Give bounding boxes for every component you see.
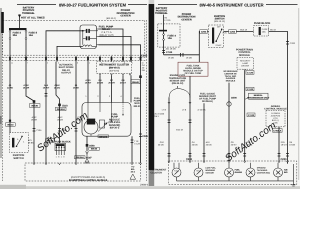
wire fuse block to right column: [269, 32, 288, 162]
connector C200 on right column: [286, 42, 289, 45]
svg-text:18 BK: 18 BK: [73, 87, 80, 90]
wire D end ticks: [45, 94, 48, 97]
speedo tach message label: [257, 167, 271, 175]
cluster internal ground bus: [177, 161, 294, 181]
fuse F5: [9, 30, 11, 57]
svg-text:18 DG: 18 DG: [54, 87, 61, 90]
svg-text:8W-30: 8W-30: [134, 105, 141, 108]
scan right edge line: [298, 8, 299, 180]
svg-text:S110: S110: [62, 104, 68, 107]
cluster variant note: [223, 70, 238, 83]
lamp security: [246, 163, 255, 177]
splice C48 ref box: [131, 80, 140, 84]
svg-text:10A: 10A: [168, 37, 173, 40]
svg-text:CLUSTER: CLUSTER: [151, 171, 163, 174]
sensor leg wires: [168, 98, 170, 162]
svg-text:G200: G200: [231, 96, 237, 99]
svg-text:CONTROL MODULE: CONTROL MODULE: [264, 108, 287, 111]
svg-text:(8W-30-2): (8W-30-2): [106, 17, 116, 20]
svg-text:C 120: C 120: [248, 114, 255, 117]
run connector ticks: [181, 53, 183, 57]
svg-text:IND: IND: [284, 171, 288, 174]
splice S110 on column E: [58, 104, 61, 107]
ticks on x132: [131, 140, 134, 143]
connector ticks on sensor wires: [168, 120, 192, 123]
wire label C lower: [28, 139, 34, 144]
svg-text:5: 5: [47, 62, 48, 65]
bus bar in PDC: [9, 28, 27, 30]
svg-text:TEMPERATURE: TEMPERATURE: [169, 77, 187, 80]
svg-text:FUEL GAUGE: FUEL GAUGE: [200, 92, 215, 95]
wire column F x76 to ground: [75, 62, 77, 163]
ground G107 symbol: [84, 154, 89, 163]
airbag internal note: [271, 112, 281, 125]
svg-text:TRANSMISSION ONLY: TRANSMISSION ONLY: [247, 96, 270, 99]
wire column L x140.5 long right: [140, 62, 142, 163]
relay internal wires: [83, 31, 98, 45]
svg-text:18 DB: 18 DB: [289, 143, 295, 146]
connector ticks on F: [75, 129, 78, 132]
power distribution center dashed box: [3, 20, 145, 55]
wire label J column: [120, 79, 127, 85]
svg-text:C105: C105: [36, 129, 42, 132]
ref box right of column D: [46, 139, 55, 143]
splice dot on battery feed: [18, 15, 21, 18]
C120 ref box 3: [247, 113, 255, 117]
label C128 on x132: [134, 140, 140, 146]
svg-text:C 120: C 120: [247, 88, 254, 91]
svg-text:20 DB: 20 DB: [192, 143, 198, 146]
wire cluster variant down x229: [228, 83, 230, 161]
svg-text:C 128: C 128: [134, 143, 140, 146]
svg-text:9: 9: [77, 62, 78, 65]
wire label C column: [23, 84, 30, 90]
ignition switch position marks (left page): [17, 138, 25, 144]
relay contact 2: [86, 36, 90, 40]
svg-text:8W-30: 8W-30: [31, 105, 38, 108]
wire battery to PDC (right): [163, 15, 165, 30]
pin letters: [56, 156, 65, 159]
wire label H column: [97, 79, 104, 85]
low fuel sensor label: [205, 167, 216, 175]
cluster feed wire labels row: [158, 141, 296, 146]
svg-text:C100: C100: [141, 55, 148, 58]
svg-text:A141: A141: [85, 79, 91, 82]
wire label F column: [73, 84, 80, 90]
svg-text:C204: C204: [201, 31, 207, 34]
connector ticks on L: [139, 134, 142, 137]
cluster pin arrows: [99, 74, 131, 76]
svg-text:(8W-40-8): (8W-40-8): [109, 70, 119, 73]
battery positive terminal label (right): [155, 7, 168, 15]
svg-text:20 DB: 20 DB: [158, 143, 164, 146]
lamp airbag: [274, 163, 289, 177]
svg-text:ONLY: ONLY: [154, 115, 160, 118]
svg-text:MODULE): MODULE): [202, 100, 213, 103]
svg-text:8W-30-8: 8W-30-8: [57, 108, 66, 111]
ignition switch label (left page): [13, 154, 25, 160]
svg-text:SENSOR UNIT: SENSOR UNIT: [170, 79, 186, 82]
svg-text:8W-30: 8W-30: [91, 148, 98, 151]
relay pin stubs: [92, 29, 99, 46]
wire sender down: [203, 103, 205, 161]
relay contact 1: [86, 29, 90, 33]
splice S140 ref box: [89, 147, 100, 150]
ref box 8W-30-15 on column C: [30, 104, 41, 108]
svg-text:G10 18: G10 18: [176, 128, 184, 131]
wire label L column: [142, 64, 146, 72]
svg-text:OUTPUT: OUTPUT: [61, 71, 71, 74]
connector row junction blobs: [9, 57, 141, 60]
svg-text:J98W-4: J98W-4: [140, 184, 149, 187]
wire sense module down: [189, 76, 191, 161]
splice on column B: [9, 120, 11, 122]
svg-text:C200: C200: [281, 158, 288, 161]
wire column I x111.5 cluster to module: [111, 75, 113, 102]
wire module to PCM x132: [131, 136, 133, 163]
svg-text:1: 1: [61, 156, 62, 159]
fuse 9 bar: [259, 27, 261, 35]
ref box 8W-30-8 on module bottom: [98, 135, 109, 138]
battery positive terminal label: [22, 7, 35, 15]
svg-text:MODULE: MODULE: [226, 80, 236, 83]
svg-text:C 120: C 120: [247, 72, 254, 75]
wire switch to sense module column: [199, 32, 208, 55]
fuse F8 value label: [29, 32, 38, 38]
scan left edge shadow: [0, 8, 2, 158]
svg-text:START: START: [216, 44, 223, 47]
svg-text:MODULE: MODULE: [239, 54, 250, 57]
svg-text:FUEL: FUEL: [174, 170, 179, 173]
wire relay pin to column x131: [99, 36, 132, 57]
svg-text:20 DB: 20 DB: [97, 82, 104, 85]
wire relay coil to column: [57, 46, 83, 57]
svg-text:1: 1: [132, 62, 133, 65]
svg-text:CENTER: CENTER: [181, 18, 191, 21]
wire column E x57 to fuse block: [56, 62, 60, 144]
svg-text:18 BK: 18 BK: [28, 142, 34, 145]
svg-text:8W-40-5 INSTRUMENT CLUSTER: 8W-40-5 INSTRUMENT CLUSTER: [199, 2, 263, 7]
svg-text:ENGINE CLTR: ENGINE CLTR: [170, 74, 186, 77]
ignition switch position labels: [216, 25, 228, 46]
relay internal common dot: [82, 30, 84, 32]
module side ref text: [134, 97, 141, 108]
svg-text:(8W-30-12): (8W-30-12): [172, 82, 184, 85]
fuel pump relay K1 box: [80, 25, 97, 49]
svg-text:OF FUEL TANK: OF FUEL TANK: [185, 72, 202, 75]
svg-text:18 OR: 18 OR: [31, 118, 38, 121]
wire label C mid: [31, 116, 38, 121]
svg-text:8W-30-5: 8W-30-5: [110, 127, 120, 130]
fuel pump module box: [82, 103, 131, 137]
instrument cluster dashed box (left page): [97, 61, 132, 73]
svg-text:SWITCH: SWITCH: [215, 18, 225, 21]
PCM bottom labels: [69, 176, 108, 182]
svg-text:8W-15-6: 8W-15-6: [76, 156, 85, 159]
splice S140: [86, 144, 89, 147]
svg-text:8W-30-8: 8W-30-8: [99, 135, 108, 138]
wire label B column: [7, 84, 14, 90]
wire relay pin to column x140.5: [99, 45, 141, 58]
svg-text:18 OR: 18 OR: [23, 87, 30, 90]
fuse block mini box: [55, 141, 71, 151]
PCM pins arrows: [33, 163, 142, 165]
svg-text:OF FUEL PUMP: OF FUEL PUMP: [199, 98, 217, 101]
fuel pump module label: [109, 113, 121, 130]
PCM output wire: [244, 71, 246, 161]
ignition switch lever: [215, 29, 222, 43]
automatic shutdown relay output note: [59, 64, 74, 75]
svg-text:18 DB: 18 DB: [186, 56, 192, 59]
fuse F8: [25, 30, 27, 57]
fuse F4 value label: [168, 34, 177, 40]
run labels: [168, 56, 192, 59]
svg-text:(EXCEPT POWER AND SHIELD): (EXCEPT POWER AND SHIELD): [71, 176, 106, 179]
wire battery feed: [19, 14, 21, 29]
wire label E column: [54, 84, 61, 90]
svg-text:CENTER: CENTER: [120, 14, 130, 17]
level sensor resistor: [98, 120, 108, 132]
wire column B x10: [9, 62, 11, 133]
connector ticks on C: [33, 129, 36, 132]
airbag control module dashed box: [266, 110, 285, 126]
manual transmission only box: [245, 93, 270, 99]
C120 ref box 2: [246, 87, 254, 91]
svg-text:12 RD: 12 RD: [7, 87, 14, 90]
svg-text:8W-10: 8W-10: [7, 124, 14, 127]
svg-text:30A: 30A: [13, 34, 18, 37]
svg-text:12 RD: 12 RD: [164, 19, 171, 22]
connector box C204 right: [229, 30, 237, 34]
svg-text:45-2: 45-2: [131, 170, 136, 173]
lamp check gauges: [225, 163, 243, 177]
relay label: [99, 26, 114, 37]
ignition switch wafer bar: [212, 28, 214, 44]
wire column H x100 cluster to module: [99, 75, 101, 102]
ignition switch dashed box: [209, 25, 224, 48]
svg-text:18 WT: 18 WT: [85, 82, 92, 85]
svg-text:GAUGE: GAUGE: [235, 171, 243, 174]
svg-text:TERMINAL: TERMINAL: [22, 12, 35, 15]
svg-text:DB: DB: [142, 69, 146, 72]
wire relay pin30 to fuse column: [46, 31, 83, 58]
powertrain control module label (right): [236, 49, 253, 57]
svg-text:C 100: C 100: [166, 51, 173, 54]
svg-text:2: 2: [89, 62, 90, 65]
chain down arrow: [86, 151, 89, 153]
ref box 8W-15-6: [75, 156, 93, 160]
svg-text:C200: C200: [186, 158, 193, 161]
ref box under S110: [56, 107, 67, 111]
svg-text:A142: A142: [23, 84, 29, 87]
PCM dashed box (right): [237, 58, 254, 70]
svg-text:SENDER (PART: SENDER (PART: [199, 95, 217, 98]
left page dashed border: [2, 20, 4, 181]
svg-text:HOT AT ALL TIMES: HOT AT ALL TIMES: [21, 16, 45, 19]
gauge temp: [194, 163, 203, 177]
wire column J x123 cluster to module: [122, 75, 124, 102]
scan gutter between pages: [149, 4, 155, 170]
note 4dr only: [154, 113, 165, 118]
wire column C x26 to ignition coil: [26, 62, 34, 140]
svg-text:18 DB: 18 DB: [168, 56, 174, 59]
off page arrow: [130, 174, 136, 179]
svg-text:PUMP: PUMP: [134, 100, 141, 103]
pin labels above module: [85, 95, 122, 98]
sensor leg arrows: [168, 102, 191, 104]
PCM entry arrow x132: [131, 163, 133, 165]
connector row ticks: [10, 56, 141, 61]
connector C100 ticks on fuse wire: [162, 50, 165, 52]
svg-text:SENSOR: SENSOR: [205, 171, 214, 174]
svg-text:G5 18: G5 18: [270, 29, 277, 32]
wire column K x131 short: [130, 75, 132, 102]
fuse 9 label: [262, 28, 270, 33]
wire column C continues to PCM: [33, 140, 35, 163]
svg-text:TEMP: TEMP: [196, 170, 202, 173]
svg-text:18 WT: 18 WT: [43, 87, 50, 90]
svg-text:15A: 15A: [29, 34, 34, 37]
engine coolant temperature sensor label: [169, 74, 187, 85]
PCM pin arrow: [244, 69, 246, 71]
fuel pump motor M: [84, 120, 98, 134]
svg-text:A-16 GA: A-16 GA: [198, 109, 207, 112]
module internal wires: [88, 103, 123, 137]
connector row C100 dashed lines: [3, 58, 147, 61]
PDC dashed box (right): [158, 24, 180, 47]
svg-text:1: 1: [56, 156, 57, 159]
PCM dashed box (left page): [25, 163, 141, 181]
instrument cluster label (left page): [99, 64, 129, 73]
right title: [158, 2, 298, 7]
eyelet G200: [227, 102, 231, 106]
fuse block pin dots: [56, 147, 65, 148]
instrument cluster label (right page bottom): [151, 169, 167, 175]
airbag out wire: [278, 129, 280, 161]
svg-text:MODULE ON TOP: MODULE ON TOP: [183, 70, 203, 73]
ignition switch lever (left page): [16, 136, 23, 147]
relay coil: [83, 45, 92, 47]
power distribution center label: [106, 9, 134, 20]
connector box C204 left of switch: [200, 30, 208, 34]
svg-text:A21 18 DB: A21 18 DB: [166, 47, 177, 50]
module bottom pin wire to ground: [86, 136, 88, 151]
horizontal wire run to sense module: [164, 55, 200, 62]
power distribution center label (right): [178, 13, 196, 21]
svg-text:20 DB: 20 DB: [206, 143, 212, 146]
instrument cluster dashed box (right page bottom): [168, 161, 296, 184]
svg-text:18 WT: 18 WT: [281, 143, 288, 146]
svg-text:LT B: LT B: [162, 109, 167, 112]
fuse block pins: [56, 146, 64, 155]
svg-text:8W-30-27 FUEL/IGNITION SYSTE: 8W-30-27 FUEL/IGNITION SYSTEM: [59, 2, 127, 7]
fuse block dashed box (right): [254, 26, 269, 36]
svg-text:(8W-10-13): (8W-10-13): [214, 20, 225, 23]
svg-text:DRIVER: DRIVER: [241, 64, 249, 67]
svg-text:SWITCH: SWITCH: [13, 157, 23, 160]
splice on column C: [33, 100, 36, 103]
svg-text:8: 8: [63, 156, 64, 159]
svg-text:G5A 18: G5A 18: [240, 29, 248, 32]
to 8W-45 note: [131, 165, 136, 173]
wire label A0: [164, 17, 171, 22]
svg-text:C204: C204: [230, 31, 236, 34]
left title: [17, 2, 147, 7]
wire label F mid: [76, 116, 82, 121]
wire switch to fuse block: [224, 31, 254, 33]
wire column G x88 to module: [87, 62, 89, 103]
svg-text:8: 8: [58, 156, 59, 159]
svg-text:C128: C128: [142, 135, 148, 138]
svg-text:(8W-40-2): (8W-40-2): [109, 67, 120, 70]
wire label G column: [85, 79, 92, 85]
svg-text:20 GY: 20 GY: [120, 82, 127, 85]
fuel tank level sense module note box: [178, 62, 208, 76]
svg-text:POWERTRAIN CONTROL MODULE: POWERTRAIN CONTROL MODULE: [69, 179, 108, 182]
svg-text:C 8, T 1 A: C 8, T 1 A: [101, 31, 112, 34]
svg-text:18 DG: 18 DG: [57, 118, 63, 121]
svg-text:A142: A142: [54, 84, 60, 87]
pin numbers under connector row: [11, 62, 144, 65]
ground at cluster bottom right: [292, 181, 296, 186]
svg-text:MOD: MOD: [134, 102, 140, 105]
svg-text:LT B: LT B: [182, 109, 187, 112]
splice C48 on column L: [139, 75, 142, 78]
wire relay out pin to column x123: [99, 29, 124, 58]
C50 ref box: [273, 129, 283, 133]
svg-text:10A: 10A: [262, 31, 266, 34]
airbag pin arrow: [278, 127, 280, 129]
PCM internal note: [240, 60, 251, 68]
connector ticks on E: [58, 129, 61, 132]
svg-text:CENTER (MC): CENTER (MC): [257, 171, 271, 174]
svg-text:FUSE BLOCK: FUSE BLOCK: [254, 22, 270, 25]
connector ticks above cluster: [168, 154, 289, 157]
svg-text:11: 11: [11, 62, 13, 65]
svg-text:7: 7: [27, 62, 28, 65]
wire column D x46: [45, 62, 47, 163]
svg-text:FUEL: FUEL: [134, 97, 141, 100]
coolant sensor wishbone symbol: [169, 86, 190, 98]
module internal pin dots: [104, 114, 124, 125]
ref box on column B: [6, 123, 16, 127]
svg-text:FUEL TANK: FUEL TANK: [187, 64, 200, 67]
wire label I column: [108, 79, 115, 85]
svg-text:20 OR: 20 OR: [108, 82, 115, 85]
scan bottom shadow: [0, 186, 300, 189]
fuel gauge sender label: [199, 92, 217, 103]
airbag control module label: [264, 105, 287, 111]
ignition switch wafer (left page): [12, 138, 14, 148]
cluster entry pin arrows: [168, 161, 289, 163]
fuse F5 value label: [13, 32, 22, 38]
svg-text:TERMINAL: TERMINAL: [155, 12, 168, 15]
svg-text:8W-45: 8W-45: [132, 81, 139, 84]
C120 ref box 1: [246, 71, 254, 75]
PDC mini bus bar: [159, 30, 167, 32]
gauge fuel: [172, 163, 181, 177]
ignition switch dashed box (left page): [9, 133, 28, 153]
wire label D column: [43, 84, 50, 90]
fuse F4 (right): [163, 31, 165, 54]
svg-text:C200: C200: [290, 42, 296, 45]
svg-text:LEVEL SENSE: LEVEL SENSE: [185, 67, 201, 70]
sensor wire labels: [162, 109, 206, 112]
wire label E mid: [57, 116, 63, 121]
